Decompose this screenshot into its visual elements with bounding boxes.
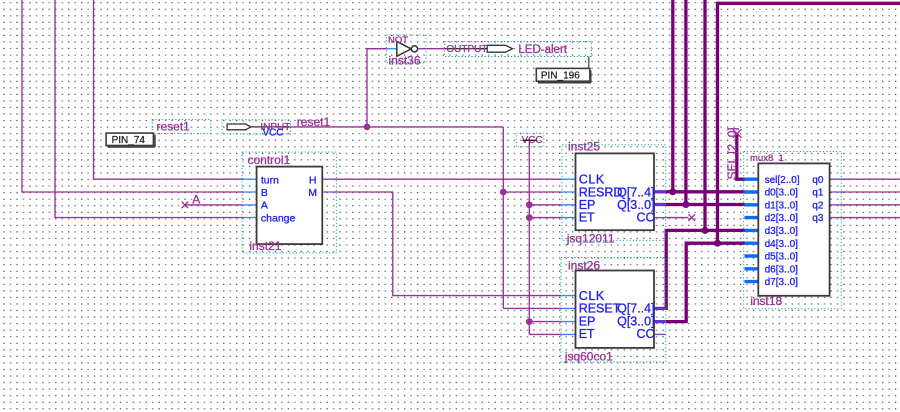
svg-text:d5[3..0]: d5[3..0] <box>765 252 799 263</box>
wire q3 out <box>841 217 900 219</box>
bus inst26 Q[3..0] up to mux d4 <box>666 243 745 321</box>
svg-text:VCC: VCC <box>263 128 284 139</box>
svg-text:jsq60co1: jsq60co1 <box>564 349 613 363</box>
wire A net <box>185 204 243 206</box>
reset1 pin name selection dashes <box>152 119 211 133</box>
svg-text:q3: q3 <box>812 213 824 224</box>
wire NOT input branch vertical <box>367 49 387 127</box>
NOT input wire <box>367 48 387 50</box>
PIN_196 assignment box <box>536 68 590 81</box>
wire VCC to inst26 EP <box>529 321 562 323</box>
NOT gate bubble <box>411 46 417 52</box>
junction reset1/NOT branch <box>364 124 371 131</box>
bus vertical at x=705 to top <box>703 0 706 230</box>
svg-text:d7[3..0]: d7[3..0] <box>765 277 799 288</box>
mux left thick blue stubs <box>745 179 759 281</box>
INPUT pin flag <box>227 124 251 130</box>
junction VCC/EP <box>526 201 533 208</box>
wire VCC to inst26 ET <box>529 333 562 335</box>
svg-text:inst25: inst25 <box>568 140 600 154</box>
svg-text:turn: turn <box>261 174 279 186</box>
svg-text:reset1: reset1 <box>297 115 331 129</box>
PIN_196 assignment box shadow <box>538 70 591 82</box>
inst25 CC violet stub <box>654 217 666 219</box>
junction VCC/EP26 <box>526 318 533 325</box>
wire reset vertical down <box>502 127 504 309</box>
bus Q[3..0] inst25 to mux d1 <box>666 203 745 206</box>
bus vertical x=717.5 with top corner to right edge <box>718 3 900 243</box>
bus inst26 Q[7..4] up to mux d3 <box>666 230 745 308</box>
wire to inst25 RESRDN <box>503 191 562 193</box>
NOT selection dashes <box>386 35 426 63</box>
mux right violet stubs <box>830 179 841 217</box>
wire q2 out <box>841 204 900 206</box>
mux8_1 block <box>758 163 829 295</box>
bus Q[7..4] inst25 to mux d0 <box>666 190 745 193</box>
svg-text:change: change <box>261 213 296 225</box>
junction bus d1 <box>682 201 689 208</box>
wire B net vertical from top <box>22 0 243 192</box>
svg-text:inst18: inst18 <box>750 294 782 308</box>
wire NOT output to OUTPUT pin <box>418 48 445 50</box>
svg-text:inst21: inst21 <box>249 239 281 253</box>
OUTPUT pin flag <box>487 45 512 52</box>
bus vertical at x=685.9 to top <box>684 0 687 205</box>
svg-text:reset1: reset1 <box>157 120 191 134</box>
bus vertical at x=672.8 to top <box>671 0 674 192</box>
inst25 CC X marker <box>688 214 695 221</box>
VCC selection dashes <box>516 133 544 147</box>
svg-text:H: H <box>309 174 317 186</box>
inst25 selection dashes <box>562 145 666 241</box>
junction bus d4 <box>714 240 721 247</box>
node A unconnected X marker <box>182 202 189 209</box>
wire VCC vertical <box>528 142 530 335</box>
svg-text:CC: CC <box>637 211 655 225</box>
NOT gate triangle <box>397 41 411 56</box>
PIN_74 assignment box <box>106 133 153 145</box>
junction bus d0 <box>669 188 676 195</box>
inst26 right bus violet stubs <box>654 308 666 321</box>
junction reset/RESRDN <box>500 189 507 196</box>
svg-text:d4[3..0]: d4[3..0] <box>765 239 799 250</box>
inst25 block <box>576 153 655 230</box>
inst25 left blue stubs <box>562 179 576 217</box>
wire VCC to inst25 EP <box>529 204 562 206</box>
svg-text:M: M <box>308 187 317 199</box>
svg-text:d6[3..0]: d6[3..0] <box>765 264 799 275</box>
NOT input blue stub <box>387 48 397 50</box>
svg-text:OUTPUT: OUTPUT <box>446 44 487 55</box>
wire inst25 CC unconnected <box>666 217 689 219</box>
svg-text:control1: control1 <box>248 153 291 167</box>
control1 block <box>257 167 323 245</box>
svg-text:ET: ET <box>579 327 595 341</box>
control1 right violet stubs <box>322 179 334 192</box>
svg-text:LED-alert: LED-alert <box>518 44 567 56</box>
wire to inst26 RESET <box>503 307 562 309</box>
svg-text:Q[3..0]: Q[3..0] <box>617 314 655 328</box>
svg-text:d3[3..0]: d3[3..0] <box>765 226 799 237</box>
svg-text:ET: ET <box>579 211 595 225</box>
svg-text:SEL [2..0]: SEL [2..0] <box>725 127 739 179</box>
wire change net vertical from top <box>55 0 243 218</box>
svg-text:B: B <box>261 187 268 199</box>
svg-text:q0: q0 <box>812 175 824 186</box>
PIN_74 assignment box shadow <box>108 135 155 147</box>
OUTPUT pin lead <box>445 48 487 50</box>
svg-text:EP: EP <box>579 314 596 328</box>
svg-text:inst36: inst36 <box>389 54 421 68</box>
svg-text:jsq12011: jsq12011 <box>566 232 615 246</box>
wire q1 out <box>841 191 900 193</box>
inst25 right bus violet stubs <box>654 192 666 205</box>
svg-text:sel[2..0]: sel[2..0] <box>765 175 800 186</box>
PIN_196 leader line <box>588 57 590 69</box>
OUTPUT selection dashes <box>445 42 592 57</box>
inst26 selection dashes <box>561 258 666 363</box>
wire VCC to inst25 ET <box>529 217 562 219</box>
VCC power symbol bar <box>523 139 538 141</box>
wire M to inst26 CLK <box>334 192 562 296</box>
svg-text:d0[3..0]: d0[3..0] <box>765 188 799 199</box>
bus SEL[2..0] to mux sel <box>737 133 745 180</box>
wire H to inst25 CLK <box>334 178 562 180</box>
svg-text:d1[3..0]: d1[3..0] <box>765 200 799 211</box>
svg-text:PIN_74: PIN_74 <box>112 135 146 146</box>
mux selection dashes <box>744 151 842 308</box>
INPUT selection dashes <box>222 120 291 134</box>
junction bus d3 <box>702 227 709 234</box>
svg-text:mux8_1: mux8_1 <box>750 153 784 164</box>
wire q0 out <box>841 178 900 180</box>
SEL X marker <box>733 129 742 138</box>
inst26 left blue stubs <box>562 296 576 335</box>
svg-text:q1: q1 <box>812 188 824 199</box>
inst26 CC violet stub <box>654 333 666 335</box>
junction VCC/ET <box>526 214 533 221</box>
inst26 block <box>576 271 655 348</box>
control1 left blue stubs <box>243 179 256 217</box>
wire reset1 horizontal <box>284 126 503 128</box>
svg-text:A: A <box>192 192 200 206</box>
INPUT pin lead <box>251 126 289 128</box>
svg-text:NOT: NOT <box>388 35 408 46</box>
svg-text:PIN_196: PIN_196 <box>541 71 580 82</box>
svg-text:A: A <box>261 200 268 212</box>
svg-text:q2: q2 <box>812 200 824 211</box>
svg-text:d2[3..0]: d2[3..0] <box>765 213 799 224</box>
svg-text:inst26: inst26 <box>568 259 600 273</box>
control1 selection dashes <box>242 152 336 253</box>
wire turn net vertical from top <box>94 0 244 179</box>
svg-text:CC: CC <box>637 327 655 341</box>
